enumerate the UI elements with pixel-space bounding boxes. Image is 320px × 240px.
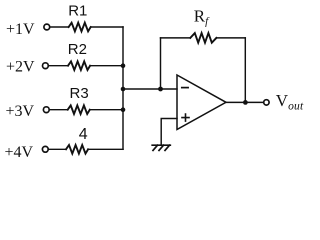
svg-text:R2: R2 xyxy=(68,41,87,58)
wire row4 left xyxy=(49,148,67,150)
terminal Vout xyxy=(264,100,269,105)
junction feedback tap xyxy=(158,87,163,92)
wire row2 right xyxy=(90,65,123,67)
svg-text:+2V: +2V xyxy=(6,59,35,76)
wire output xyxy=(226,101,263,103)
terminal T1 xyxy=(44,24,50,30)
wire row3 right xyxy=(90,109,123,111)
wire feedback top left xyxy=(161,37,191,39)
terminal T4 xyxy=(42,146,48,152)
op-amp U1 xyxy=(177,75,226,130)
terminal T3 xyxy=(43,107,49,113)
ground xyxy=(152,145,170,150)
junction output node xyxy=(243,100,248,105)
wire row1 right xyxy=(91,26,123,28)
wire row3 left xyxy=(50,109,68,111)
wire feedback top right xyxy=(216,37,245,39)
svg-text:Vout: Vout xyxy=(276,91,304,113)
resistor R2 xyxy=(68,61,90,70)
op-amp plus mark xyxy=(182,114,189,121)
junction row2 xyxy=(121,63,126,68)
wire row2 left xyxy=(49,65,68,67)
wire row1 left xyxy=(50,26,69,28)
terminal T2 xyxy=(43,63,49,69)
svg-text:+1V: +1V xyxy=(6,21,35,38)
svg-text:4: 4 xyxy=(79,126,88,143)
op-amp minus mark xyxy=(182,87,188,89)
svg-text:R3: R3 xyxy=(70,85,89,102)
wire row4 right xyxy=(88,148,123,150)
svg-text:R1: R1 xyxy=(68,2,87,19)
svg-text:+3V: +3V xyxy=(6,103,35,120)
wire feedback right vertical xyxy=(244,38,246,103)
junction summing node xyxy=(121,87,126,92)
svg-text:+4V: +4V xyxy=(5,144,34,161)
resistor R1 xyxy=(69,23,91,32)
resistor Rf xyxy=(190,33,216,43)
svg-text:Rf: Rf xyxy=(194,7,210,28)
wire summing node to op-amp minus input xyxy=(123,88,177,90)
resistor R3 xyxy=(68,105,90,114)
bus wire vertical xyxy=(122,27,124,149)
wire plus input xyxy=(161,119,177,145)
resistor R4 xyxy=(66,145,88,154)
junction row3 xyxy=(121,107,126,112)
wire feedback left vertical xyxy=(160,38,162,89)
